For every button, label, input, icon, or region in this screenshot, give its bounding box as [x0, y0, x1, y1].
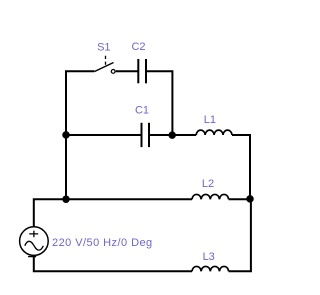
junction node B — [168, 131, 176, 139]
inductor L2 — [192, 194, 229, 199]
junction node C — [62, 195, 70, 203]
svg-text:L1: L1 — [204, 114, 216, 126]
svg-text:L3: L3 — [203, 251, 215, 263]
inductor L3 — [192, 266, 229, 271]
wire: right rail — [249, 134, 251, 199]
svg-text:C1: C1 — [135, 104, 149, 116]
sine wave — [25, 241, 44, 250]
capacitor C2 — [138, 59, 146, 83]
wire: left rail — [65, 71, 67, 199]
wire: right rail lower — [250, 199, 252, 271]
wire: source bottom to bottom branch — [34, 255, 192, 271]
minus terminal tick — [28, 256, 36, 258]
switch S1 — [94, 56, 115, 74]
switch blade — [94, 63, 113, 72]
plus sign — [29, 231, 38, 238]
wire: second branch left — [66, 134, 142, 136]
svg-text:L2: L2 — [202, 178, 214, 190]
wire: L3 to right rail corner — [229, 270, 252, 272]
wire: L1 to right rail — [232, 134, 250, 136]
wire: switch to C2 — [116, 70, 139, 72]
wire: C1 to L1 — [149, 134, 196, 136]
junction node D — [246, 195, 254, 203]
junction node A — [62, 131, 70, 139]
capacitor C1 — [142, 123, 150, 147]
svg-text:C2: C2 — [131, 41, 145, 53]
switch contact circle — [111, 70, 115, 74]
wire: third branch from source stem — [34, 199, 192, 227]
wire: L2 to right rail — [229, 198, 250, 200]
source circle — [20, 227, 49, 256]
wire: top branch left segment — [65, 70, 94, 72]
svg-text:220 V/50 Hz/0 Deg: 220 V/50 Hz/0 Deg — [52, 237, 153, 249]
switch actuator dashed stem — [105, 56, 107, 67]
inductor L1 — [196, 130, 232, 135]
AC source V1 — [20, 227, 49, 257]
wire: C2 right to corner down to junction — [146, 71, 172, 135]
svg-text:S1: S1 — [97, 41, 110, 53]
